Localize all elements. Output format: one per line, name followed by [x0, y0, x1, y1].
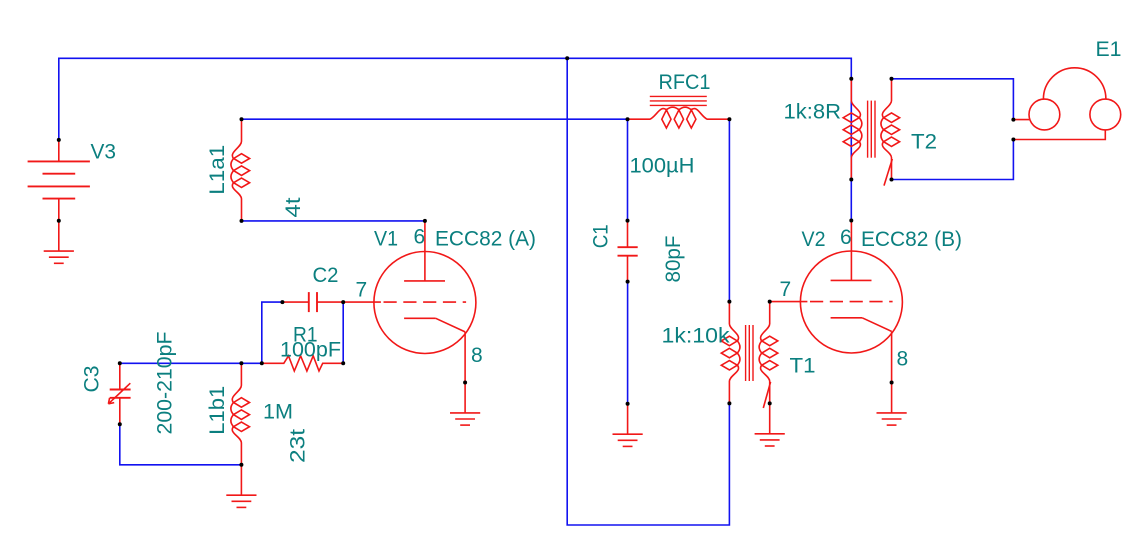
- ground below V3: [44, 221, 74, 264]
- label 100uH: [630, 155, 695, 178]
- triode V1 ECC82 (A): [343, 221, 476, 383]
- node V1 pin 8 ground: [463, 381, 467, 385]
- label ECC82 (A): [435, 227, 536, 250]
- node L1a1 top: [240, 117, 244, 121]
- label 200-210pF: [154, 332, 177, 435]
- node T2 secondary bottom: [890, 178, 894, 182]
- pin number 7 of V2: [780, 278, 792, 301]
- label 1k:10k: [662, 324, 731, 347]
- wire RFC1-left junction down to C1 top: [627, 119, 629, 220]
- svg-text:L1a1: L1a1: [206, 145, 229, 195]
- node T1 primary bottom: [727, 401, 731, 405]
- svg-text:1M: 1M: [263, 401, 293, 424]
- svg-text:T1: T1: [790, 354, 816, 377]
- inductor RFC1: [628, 107, 730, 128]
- wire rail L1a1 top to RFC1 left: [242, 118, 628, 120]
- svg-text:L1b1: L1b1: [206, 386, 229, 435]
- battery V3: [28, 140, 90, 221]
- svg-text:C3: C3: [81, 366, 104, 393]
- node C3 bottom: [118, 422, 122, 426]
- node V2 pin 8 ground: [890, 381, 894, 385]
- label 1M: [263, 401, 293, 424]
- node E1 left pin: [1011, 118, 1015, 122]
- svg-text:V3: V3: [91, 141, 117, 164]
- svg-text:E1: E1: [1096, 38, 1122, 61]
- wire C3 bottom to L1b1 bottom: [120, 424, 242, 465]
- node C3 top: [118, 361, 122, 365]
- label 23t: [287, 429, 310, 463]
- ground below V1 pin 8: [450, 383, 480, 426]
- wire C3 top rail to R1 left: [120, 362, 262, 364]
- label 80pF: [662, 236, 685, 283]
- node RFC1 left / C1 branch: [626, 117, 630, 121]
- pin number 6 of V2: [840, 226, 852, 249]
- transformer T2 windings: [843, 79, 899, 180]
- adjustment stroke T1: [763, 382, 770, 408]
- variable capacitor C3: [108, 363, 130, 424]
- svg-text:7: 7: [780, 278, 792, 301]
- label C1: [590, 224, 613, 248]
- pin number 7 of V1: [356, 279, 368, 302]
- svg-text:23t: 23t: [287, 429, 310, 463]
- svg-text:100µH: 100µH: [630, 155, 695, 178]
- node T1 secondary bottom: [768, 401, 772, 405]
- svg-text:V2: V2: [802, 228, 826, 251]
- ground below C1: [613, 404, 643, 447]
- triode V2 ECC82 (B): [770, 220, 903, 382]
- svg-text:ECC82 (A): ECC82 (A): [435, 227, 536, 250]
- node L1b1 bottom: [239, 463, 243, 467]
- node C2 right / V1 pin 7: [341, 300, 345, 304]
- wire L1a1 bottom to V1 pin 6: [242, 220, 425, 222]
- label V2: [802, 228, 826, 251]
- node T1 secondary top: [768, 300, 772, 304]
- node T2 secondary top: [890, 77, 894, 81]
- label V3: [91, 141, 117, 164]
- wire C2 right down to R1 right: [342, 302, 344, 363]
- svg-text:200-210pF: 200-210pF: [154, 332, 177, 435]
- label L1a1: [206, 145, 229, 195]
- svg-text:80pF: 80pF: [662, 236, 685, 283]
- svg-text:6: 6: [840, 226, 852, 249]
- svg-text:8: 8: [471, 344, 483, 367]
- inductor L1a1: [231, 119, 250, 221]
- node RFC1 right: [727, 117, 731, 121]
- svg-text:4t: 4t: [282, 197, 305, 217]
- node V3 top: [57, 138, 61, 142]
- label ECC82 (B): [861, 228, 962, 251]
- pin number 8 of V1: [471, 344, 483, 367]
- label C3: [81, 366, 104, 393]
- svg-text:7: 7: [356, 279, 368, 302]
- inductor L1b1: [231, 363, 250, 465]
- node C2 left: [280, 300, 284, 304]
- capacitor C2: [282, 292, 343, 312]
- wire B- return: top rail junction down, bottom rail, up to T1 primary bottom: [567, 58, 729, 525]
- label RFC1: [659, 71, 711, 94]
- label 1k:8R: [784, 101, 842, 124]
- node L1b1 top: [239, 361, 243, 365]
- core of RFC1: [650, 96, 707, 105]
- svg-text:6: 6: [414, 226, 426, 249]
- node T1 primary top: [727, 300, 731, 304]
- svg-text:C2: C2: [313, 264, 339, 287]
- wire C2 left to left riser down to R1 left: [262, 302, 283, 363]
- svg-text:V1: V1: [374, 227, 398, 250]
- svg-text:ECC82 (B): ECC82 (B): [861, 228, 962, 251]
- wire T2 secondary top to E1 left pin: [892, 79, 1014, 120]
- node V3 bottom: [57, 219, 61, 223]
- node C1 top: [626, 219, 630, 223]
- node C1 bottom: [626, 280, 630, 284]
- label V1: [374, 227, 398, 250]
- wire RFC1 right down to T1 primary top: [728, 119, 730, 301]
- transformer T1 windings: [721, 302, 778, 404]
- svg-text:8: 8: [897, 347, 909, 370]
- core of T1: [746, 325, 753, 381]
- ground below T1 secondary: [755, 403, 785, 446]
- wire C1 bottom to ground junction: [627, 282, 629, 404]
- wire B+ top rail from V3 through top to T2/V2 anode: [59, 58, 852, 220]
- svg-text:1k:8R: 1k:8R: [784, 101, 842, 124]
- label C2: [313, 264, 339, 287]
- node C1 ground: [626, 402, 630, 406]
- ground below V2 pin 8: [877, 383, 907, 426]
- pin number 6 of V1: [414, 226, 426, 249]
- label R1: [293, 324, 318, 347]
- svg-text:100pF: 100pF: [280, 338, 341, 361]
- resistor R1: [262, 356, 343, 371]
- svg-text:T2: T2: [911, 130, 937, 153]
- pin number 8 of V2: [897, 347, 909, 370]
- svg-text:C1: C1: [590, 224, 613, 248]
- node T2 primary top: [849, 77, 853, 81]
- core of T2: [868, 101, 875, 158]
- node V2 pin 6: [849, 219, 853, 223]
- node T2 primary bottom: [849, 178, 853, 182]
- ground below L1b1: [226, 465, 256, 508]
- label 100pF: [280, 338, 341, 361]
- capacitor C1: [618, 221, 638, 282]
- label L1b1: [206, 386, 229, 435]
- junction top rail / B- riser: [565, 56, 569, 60]
- label 4t: [282, 197, 305, 217]
- earphone E1: [1013, 68, 1120, 140]
- label T2: [911, 130, 937, 153]
- node L1a1 bottom: [240, 219, 244, 223]
- svg-text:1k:10k: 1k:10k: [662, 324, 731, 347]
- node R1 right: [341, 361, 345, 365]
- adjustment stroke T2: [884, 159, 892, 186]
- node V1 pin 6: [423, 219, 427, 223]
- node E1 right pin: [1011, 138, 1015, 142]
- svg-text:RFC1: RFC1: [659, 71, 711, 94]
- wire E1 right pin down to T2 secondary bottom: [892, 140, 1014, 180]
- node R1 left: [260, 361, 264, 365]
- label T1: [790, 354, 816, 377]
- label E1: [1096, 38, 1122, 61]
